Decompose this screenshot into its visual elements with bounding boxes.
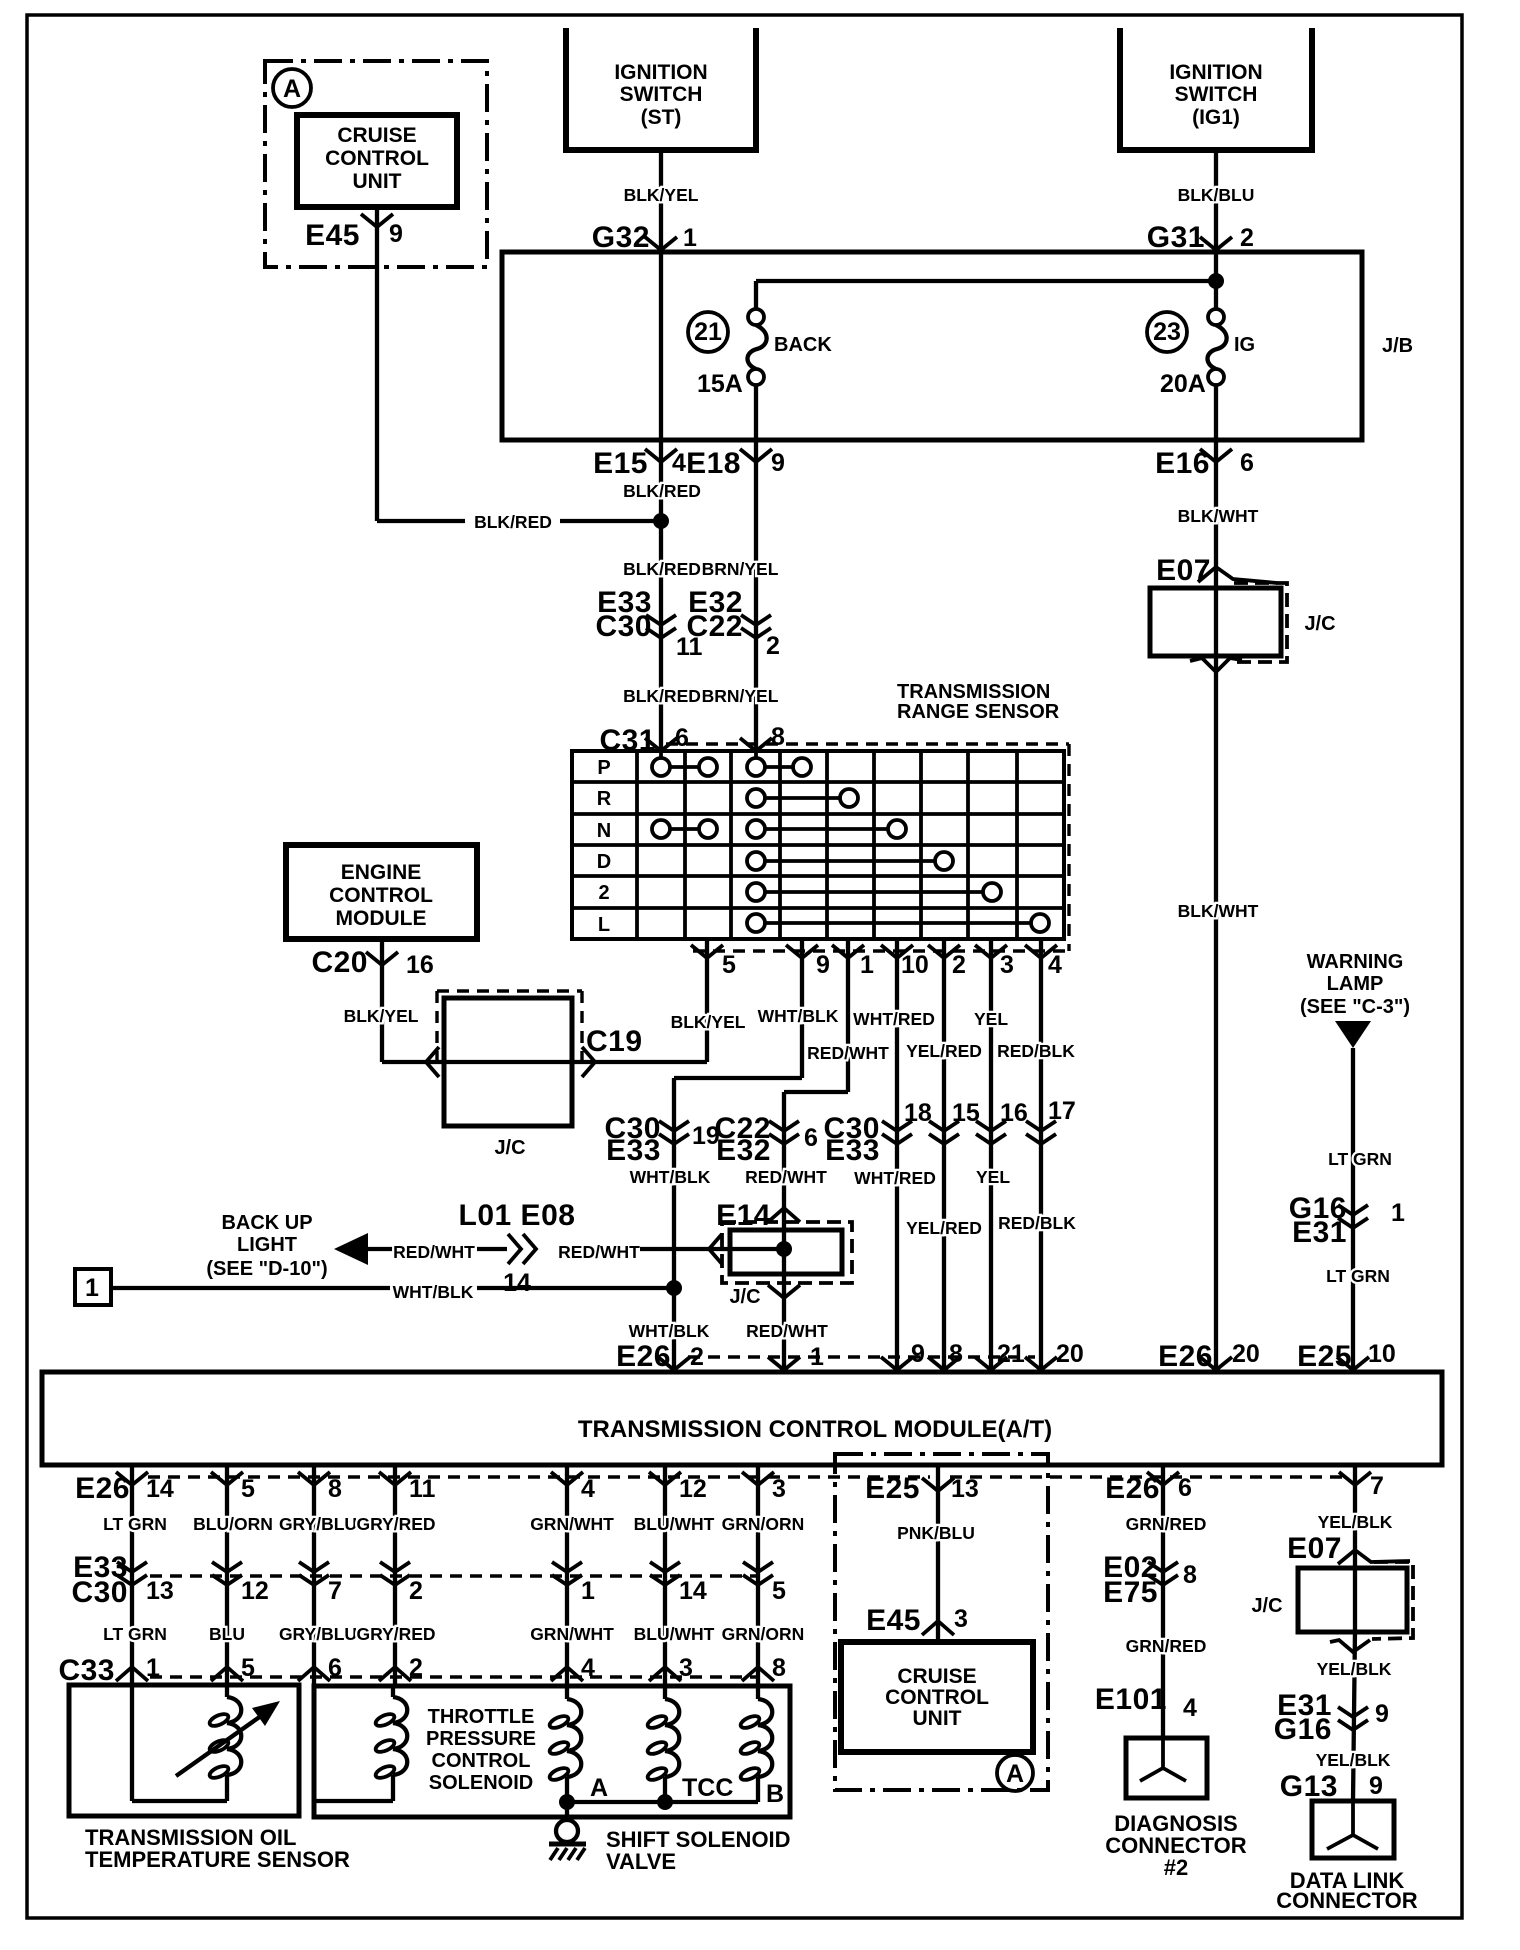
wire through J/B from G32 to E15 xyxy=(659,252,663,440)
connector E26 pin 21 xyxy=(975,1357,1007,1370)
svg-text:WARNING: WARNING xyxy=(1307,951,1404,973)
wire fuse23 to E16 xyxy=(1214,385,1218,440)
svg-text:8: 8 xyxy=(1183,1561,1197,1589)
svg-text:J/C: J/C xyxy=(729,1286,760,1308)
svg-text:(SEE "D-10"): (SEE "D-10") xyxy=(206,1258,327,1280)
svg-text:20: 20 xyxy=(1056,1340,1084,1368)
svg-text:YEL/BLK: YEL/BLK xyxy=(1318,1512,1393,1532)
solenoid assembly box xyxy=(314,1686,790,1817)
svg-text:LT GRN: LT GRN xyxy=(1328,1149,1392,1169)
svg-text:20A: 20A xyxy=(1160,370,1206,398)
wire fuse21 to E18 xyxy=(754,385,758,440)
svg-text:E18: E18 xyxy=(686,447,741,480)
cruise control unit (bottom) dashed boundary xyxy=(835,1454,1048,1790)
svg-text:E07: E07 xyxy=(1287,1532,1342,1565)
wire BRN/YEL E18 to C31 xyxy=(754,440,758,752)
range sensor contacts row D xyxy=(765,859,935,863)
svg-text:BLK/WHT: BLK/WHT xyxy=(1178,506,1259,526)
wire YEL from range sensor pin 3 xyxy=(989,941,993,1372)
transmission range sensor connector dashed boundary xyxy=(666,742,1069,745)
svg-text:C33: C33 xyxy=(58,1654,115,1687)
wire from TCM bottom at x=567 xyxy=(565,1465,569,1686)
svg-text:7: 7 xyxy=(1370,1472,1384,1500)
connector E26 pin 9 xyxy=(881,1357,913,1370)
svg-text:GRY/BLU: GRY/BLU xyxy=(279,1624,357,1644)
wire BLK/YEL from C20 to J/C C19 xyxy=(380,939,384,1062)
transmission oil temperature sensor box xyxy=(69,1685,299,1816)
connector pin 15 xyxy=(929,1121,959,1131)
connector E33/C30 pin 2 xyxy=(380,1562,410,1572)
shift solenoid TCC coil xyxy=(663,1686,667,1699)
svg-text:5: 5 xyxy=(772,1577,786,1605)
svg-text:BLU/ORN: BLU/ORN xyxy=(193,1514,273,1534)
svg-text:16: 16 xyxy=(406,951,434,979)
svg-text:21: 21 xyxy=(694,318,722,346)
svg-text:E26: E26 xyxy=(1158,1340,1213,1373)
svg-text:14: 14 xyxy=(146,1475,174,1503)
svg-text:J/B: J/B xyxy=(1382,335,1413,357)
svg-text:N: N xyxy=(597,820,611,842)
wire BLK/YEL from ignition ST xyxy=(659,150,663,252)
svg-text:LIGHT: LIGHT xyxy=(237,1234,297,1256)
svg-text:YEL/RED: YEL/RED xyxy=(906,1218,982,1238)
svg-text:A: A xyxy=(590,1774,608,1802)
svg-text:C30: C30 xyxy=(71,1576,128,1609)
svg-text:23: 23 xyxy=(1153,318,1181,346)
svg-text:3: 3 xyxy=(679,1654,693,1682)
wire through C19 to range sensor pin 5 xyxy=(382,1060,707,1064)
svg-text:GRY/BLU: GRY/BLU xyxy=(279,1514,357,1534)
cruise control unit (top, detail A) dashed boundary xyxy=(265,61,487,267)
wire BLK/YEL range sensor pin5 down xyxy=(705,941,709,1062)
svg-text:BLU/WHT: BLU/WHT xyxy=(634,1624,715,1644)
range sensor connector pin 4 xyxy=(1025,945,1057,958)
svg-text:G16: G16 xyxy=(1274,1713,1332,1746)
transmission range sensor switch grid xyxy=(572,751,1064,939)
wire branch to fuse 21 xyxy=(756,279,1216,283)
connector E26 pin 8 xyxy=(298,1472,330,1485)
junction block J/B box xyxy=(502,252,1362,440)
connector E33/C30 pin 1 xyxy=(552,1562,582,1572)
svg-text:YEL/RED: YEL/RED xyxy=(906,1041,982,1061)
junction connector C19 J/C dashed boundary xyxy=(437,989,582,992)
node 1 box xyxy=(75,1269,111,1305)
svg-text:1: 1 xyxy=(1391,1199,1405,1227)
svg-text:1: 1 xyxy=(810,1343,824,1371)
svg-text:R: R xyxy=(597,788,612,810)
svg-text:15A: 15A xyxy=(697,370,743,398)
svg-text:E32: E32 xyxy=(716,1134,771,1167)
wire BLK/WHT down to TCM E26-20 xyxy=(1214,588,1218,1372)
svg-text:E33: E33 xyxy=(606,1134,661,1167)
svg-text:BLK/RED: BLK/RED xyxy=(474,512,552,532)
svg-text:CONTROL: CONTROL xyxy=(885,1686,989,1709)
svg-text:A: A xyxy=(1006,1760,1024,1788)
wire WHT/RED from range sensor pin 10 xyxy=(895,941,899,1372)
svg-text:BLK/YEL: BLK/YEL xyxy=(624,185,699,205)
svg-text:RED/BLK: RED/BLK xyxy=(997,1041,1075,1061)
svg-text:6: 6 xyxy=(804,1124,818,1152)
svg-text:E15: E15 xyxy=(593,447,648,480)
svg-text:C19: C19 xyxy=(586,1025,643,1058)
svg-text:IG: IG xyxy=(1234,334,1255,356)
svg-text:14: 14 xyxy=(679,1577,707,1605)
svg-text:E45: E45 xyxy=(866,1604,921,1637)
svg-text:WHT/BLK: WHT/BLK xyxy=(758,1006,839,1026)
svg-text:1: 1 xyxy=(860,951,874,979)
svg-text:WHT/BLK: WHT/BLK xyxy=(630,1167,711,1187)
wire PNK/BLU xyxy=(936,1465,940,1642)
svg-text:SWITCH: SWITCH xyxy=(1175,83,1258,106)
svg-text:GRN/ORN: GRN/ORN xyxy=(722,1514,805,1534)
svg-text:LT GRN: LT GRN xyxy=(103,1514,167,1534)
svg-text:UNIT: UNIT xyxy=(913,1707,962,1730)
svg-text:21: 21 xyxy=(997,1340,1025,1368)
svg-text:6: 6 xyxy=(1240,449,1254,477)
svg-text:BLK/BLU: BLK/BLU xyxy=(1178,185,1255,205)
svg-text:J/C: J/C xyxy=(494,1137,525,1159)
diagnosis connector #2 box xyxy=(1126,1738,1207,1798)
svg-text:10: 10 xyxy=(1368,1340,1396,1368)
svg-text:2: 2 xyxy=(1240,224,1254,252)
svg-text:G13: G13 xyxy=(1280,1770,1338,1803)
svg-text:TCC: TCC xyxy=(682,1774,733,1802)
wire from G31 down into J/B xyxy=(1214,252,1218,309)
svg-text:9: 9 xyxy=(1375,1700,1389,1728)
svg-text:GRN/ORN: GRN/ORN xyxy=(722,1624,805,1644)
connector E26 pin 14 xyxy=(116,1472,148,1485)
connector E26 pin 2 xyxy=(658,1357,690,1370)
svg-text:6: 6 xyxy=(675,724,689,752)
svg-text:7: 7 xyxy=(328,1577,342,1605)
connector E33/C30 pin 14 xyxy=(650,1562,680,1572)
svg-text:4: 4 xyxy=(1048,951,1062,979)
svg-text:WHT/BLK: WHT/BLK xyxy=(393,1282,474,1302)
junction node BLK/RED xyxy=(653,513,669,529)
svg-text:4: 4 xyxy=(672,449,686,477)
svg-text:3: 3 xyxy=(772,1475,786,1503)
range sensor contacts row N xyxy=(670,827,699,831)
wire WHT/BLK from node 1 to junction xyxy=(110,1286,390,1290)
svg-text:YEL/BLK: YEL/BLK xyxy=(1316,1750,1391,1770)
svg-text:GRY/RED: GRY/RED xyxy=(356,1624,435,1644)
connector pin 7 at TCM bottom xyxy=(1339,1472,1371,1485)
svg-text:18: 18 xyxy=(904,1099,932,1127)
data link connector box xyxy=(1312,1801,1394,1858)
svg-text:11: 11 xyxy=(409,1475,436,1503)
svg-text:20: 20 xyxy=(1232,1340,1260,1368)
connector C33 pin 8 xyxy=(742,1667,774,1681)
range sensor connector pin 1 xyxy=(832,945,864,958)
connector C33 pin 3 xyxy=(649,1667,681,1681)
svg-text:E25: E25 xyxy=(865,1472,920,1505)
svg-text:BACK UP: BACK UP xyxy=(221,1212,312,1234)
connector pin 16 xyxy=(976,1121,1006,1131)
svg-text:8: 8 xyxy=(772,1654,786,1682)
wire YEL/BLK xyxy=(1353,1465,1357,1568)
connector E26 pin 20 xyxy=(1025,1357,1057,1370)
wire RED/BLK from range sensor pin 4 xyxy=(1039,941,1043,1372)
svg-text:RED/WHT: RED/WHT xyxy=(746,1321,828,1341)
transmission control module box xyxy=(42,1372,1442,1465)
wire BLK/RED E15 to C31 xyxy=(659,440,663,752)
connector E26 pin 11 xyxy=(379,1472,411,1485)
svg-text:GRN/RED: GRN/RED xyxy=(1126,1636,1207,1656)
cruise control unit box (top) xyxy=(297,115,457,207)
svg-text:8: 8 xyxy=(949,1340,963,1368)
wire from TCM bottom at x=132 xyxy=(130,1465,134,1686)
svg-text:LT GRN: LT GRN xyxy=(103,1624,167,1644)
svg-text:CONTROL: CONTROL xyxy=(325,147,429,170)
wire BLK/WHT from E16 xyxy=(1214,440,1218,588)
connector E33/C30 pin 5 xyxy=(743,1562,773,1572)
range sensor contacts row R xyxy=(765,796,840,800)
shift solenoid A coil xyxy=(565,1686,569,1699)
svg-text:IGNITION: IGNITION xyxy=(1169,61,1262,84)
svg-text:VALVE: VALVE xyxy=(606,1849,676,1874)
svg-text:BLK/RED: BLK/RED xyxy=(623,481,701,501)
svg-text:6: 6 xyxy=(328,1654,342,1682)
wire joining solenoid commons xyxy=(567,1800,758,1804)
thermistor RT (variable resistor) xyxy=(130,1686,134,1801)
svg-text:3: 3 xyxy=(954,1605,968,1633)
svg-text:BRN/YEL: BRN/YEL xyxy=(702,686,779,706)
svg-text:16: 16 xyxy=(1000,1099,1028,1127)
svg-text:4: 4 xyxy=(581,1654,595,1682)
svg-text:2: 2 xyxy=(690,1343,704,1371)
svg-text:SWITCH: SWITCH xyxy=(620,83,703,106)
svg-text:8: 8 xyxy=(771,723,785,751)
svg-text:9: 9 xyxy=(771,449,785,477)
svg-text:9: 9 xyxy=(911,1340,925,1368)
svg-text:E45: E45 xyxy=(305,219,360,252)
circled A marker (bottom) xyxy=(997,1755,1033,1791)
ignition switch (IG1) box xyxy=(1120,28,1312,150)
wire from TCM bottom at x=395 xyxy=(393,1465,397,1686)
svg-text:9: 9 xyxy=(389,220,403,248)
svg-text:E07: E07 xyxy=(1156,554,1211,587)
connector E26 pin 4 xyxy=(551,1472,583,1485)
svg-text:3: 3 xyxy=(1000,951,1014,979)
connector C33 pin 1 xyxy=(116,1667,148,1681)
connector E26 pin 5 xyxy=(211,1472,243,1485)
svg-text:CONTROL: CONTROL xyxy=(432,1750,531,1772)
throttle pressure control solenoid coil xyxy=(391,1686,395,1697)
svg-text:B: B xyxy=(766,1780,784,1808)
range sensor connector pin 5 xyxy=(691,945,723,958)
svg-text:BLK/YEL: BLK/YEL xyxy=(344,1006,419,1026)
svg-text:E31: E31 xyxy=(1292,1216,1347,1249)
svg-text:GRY/RED: GRY/RED xyxy=(356,1514,435,1534)
svg-text:#2: #2 xyxy=(1164,1855,1188,1880)
svg-text:YEL: YEL xyxy=(976,1167,1010,1187)
svg-text:RED/WHT: RED/WHT xyxy=(393,1242,475,1262)
svg-text:9: 9 xyxy=(1369,1772,1383,1800)
svg-text:UNIT: UNIT xyxy=(353,170,402,193)
connector E26 pin 12 xyxy=(649,1472,681,1485)
svg-text:GRN/WHT: GRN/WHT xyxy=(530,1514,614,1534)
svg-text:1: 1 xyxy=(85,1274,99,1302)
svg-text:1: 1 xyxy=(581,1577,595,1605)
svg-text:2: 2 xyxy=(409,1654,423,1682)
svg-text:2: 2 xyxy=(766,632,780,660)
svg-text:4: 4 xyxy=(1183,1694,1197,1722)
svg-text:8: 8 xyxy=(328,1475,342,1503)
connector C33 pin 5 xyxy=(211,1667,243,1681)
connector E26 pin 8 xyxy=(928,1357,960,1370)
connector E33/C30 pin 7 xyxy=(299,1562,329,1572)
connector pin 17 xyxy=(1026,1121,1056,1131)
svg-text:BLU: BLU xyxy=(209,1624,245,1644)
svg-text:10: 10 xyxy=(901,951,929,979)
svg-text:E25: E25 xyxy=(1297,1340,1352,1373)
svg-text:CRUISE: CRUISE xyxy=(337,124,416,147)
svg-text:D: D xyxy=(597,851,611,873)
wire from TCM bottom at x=314 xyxy=(312,1465,316,1686)
range sensor connector pin 2 xyxy=(928,945,960,958)
svg-text:13: 13 xyxy=(951,1475,979,1503)
svg-text:(ST): (ST) xyxy=(641,106,682,129)
ground symbol xyxy=(565,1802,569,1820)
svg-text:TEMPERATURE SENSOR: TEMPERATURE SENSOR xyxy=(85,1847,350,1872)
arrow to back up light xyxy=(334,1233,368,1265)
svg-text:(SEE "C-3"): (SEE "C-3") xyxy=(1300,996,1410,1018)
svg-text:L: L xyxy=(598,914,610,936)
svg-text:SOLENOID: SOLENOID xyxy=(429,1772,533,1794)
svg-text:C20: C20 xyxy=(311,946,368,979)
svg-text:RED/WHT: RED/WHT xyxy=(558,1242,640,1262)
shift solenoid B coil xyxy=(756,1686,760,1699)
junction node A xyxy=(559,1794,575,1810)
circled A marker (top) xyxy=(273,69,311,107)
wire from TCM bottom at x=758 xyxy=(756,1465,760,1686)
svg-text:ENGINE: ENGINE xyxy=(341,861,422,884)
range sensor connector pin 3 xyxy=(975,945,1007,958)
svg-text:GRN/WHT: GRN/WHT xyxy=(530,1624,614,1644)
svg-text:C30: C30 xyxy=(595,610,652,643)
svg-text:RANGE SENSOR: RANGE SENSOR xyxy=(897,701,1060,723)
junction node TCC xyxy=(657,1794,673,1810)
svg-text:RED/BLK: RED/BLK xyxy=(998,1213,1076,1233)
svg-text:13: 13 xyxy=(146,1577,174,1605)
svg-text:PRESSURE: PRESSURE xyxy=(426,1728,536,1750)
wire RED/WHT from range sensor pin 1 xyxy=(846,941,850,1092)
connector C33 pin 4 xyxy=(551,1667,583,1681)
svg-text:G31: G31 xyxy=(1147,221,1205,254)
wire RED/WHT into E14 xyxy=(640,1247,784,1251)
svg-text:5: 5 xyxy=(241,1475,255,1503)
svg-text:12: 12 xyxy=(679,1475,707,1503)
svg-text:5: 5 xyxy=(241,1654,255,1682)
wire from TCM bottom at x=227 xyxy=(225,1465,229,1686)
svg-text:LAMP: LAMP xyxy=(1327,973,1384,995)
svg-text:J/C: J/C xyxy=(1251,1595,1282,1617)
svg-text:TRANSMISSION CONTROL MODULE(A/: TRANSMISSION CONTROL MODULE(A/T) xyxy=(578,1416,1052,1443)
connector E26 pin 3 xyxy=(742,1472,774,1485)
connector C33 pin 2 xyxy=(379,1667,411,1681)
svg-text:P: P xyxy=(597,757,610,779)
junction node WHT/BLK xyxy=(666,1280,682,1296)
svg-text:A: A xyxy=(283,75,301,103)
svg-text:L01 E08: L01 E08 xyxy=(459,1199,576,1232)
svg-text:12: 12 xyxy=(241,1577,269,1605)
svg-text:BACK: BACK xyxy=(774,334,832,356)
fuse 21 BACK 15A xyxy=(748,309,764,325)
svg-text:G32: G32 xyxy=(592,221,650,254)
wire from TCM bottom at x=665 xyxy=(663,1465,667,1686)
connector E33/C30 pin 12 xyxy=(212,1562,242,1572)
svg-text:YEL: YEL xyxy=(974,1009,1008,1029)
range sensor contacts row 2 xyxy=(765,890,983,894)
svg-text:BLK/YEL: BLK/YEL xyxy=(671,1012,746,1032)
svg-text:BLU/WHT: BLU/WHT xyxy=(634,1514,715,1534)
engine control module box xyxy=(286,845,477,939)
svg-text:E75: E75 xyxy=(1103,1576,1158,1609)
svg-text:MODULE: MODULE xyxy=(336,907,427,930)
wire YEL/RED from range sensor pin 2 xyxy=(942,941,946,1372)
svg-text:2: 2 xyxy=(952,951,966,979)
svg-text:E33: E33 xyxy=(825,1134,880,1167)
junction connector E07 J/C box (top) xyxy=(1232,583,1287,662)
svg-text:17: 17 xyxy=(1048,1097,1076,1125)
svg-text:J/C: J/C xyxy=(1304,613,1335,635)
svg-text:2: 2 xyxy=(598,882,609,904)
range sensor connector pin 9 xyxy=(786,945,818,958)
svg-text:CRUISE: CRUISE xyxy=(897,1665,976,1688)
svg-text:9: 9 xyxy=(816,951,830,979)
svg-text:GRN/RED: GRN/RED xyxy=(1126,1514,1207,1534)
svg-text:5: 5 xyxy=(722,951,736,979)
connector E33/C30 pin 13 xyxy=(117,1562,147,1572)
junction node inside J/B xyxy=(1208,273,1224,289)
svg-text:E101: E101 xyxy=(1095,1683,1167,1716)
svg-text:E14: E14 xyxy=(716,1199,771,1232)
svg-text:WHT/BLK: WHT/BLK xyxy=(629,1321,710,1341)
wire GRN/RED xyxy=(1161,1465,1165,1738)
wire LT GRN from warning lamp xyxy=(1351,1048,1355,1372)
svg-text:THROTTLE: THROTTLE xyxy=(428,1706,535,1728)
svg-text:CONNECTOR: CONNECTOR xyxy=(1276,1888,1417,1913)
svg-text:WHT/RED: WHT/RED xyxy=(853,1009,935,1029)
svg-text:RED/WHT: RED/WHT xyxy=(745,1167,827,1187)
svg-text:YEL/BLK: YEL/BLK xyxy=(1317,1659,1392,1679)
connector C33 pin 6 xyxy=(298,1667,330,1681)
range sensor contacts row P xyxy=(659,751,663,758)
svg-text:(IG1): (IG1) xyxy=(1192,106,1240,129)
svg-text:14: 14 xyxy=(503,1269,531,1297)
junction connector C19 J/C box xyxy=(444,998,572,1126)
wire BLK/BLU from ignition IG1 xyxy=(1214,150,1218,252)
wire BLK/RED from cruise E45-9 down and right to junction xyxy=(375,207,379,521)
svg-text:6: 6 xyxy=(1178,1474,1192,1502)
junction connector E07 J/C box (bottom) xyxy=(1372,1562,1413,1639)
ignition switch (ST) box xyxy=(566,28,756,150)
warning lamp arrow xyxy=(1335,1021,1371,1048)
svg-text:BLK/WHT: BLK/WHT xyxy=(1178,901,1259,921)
svg-text:4: 4 xyxy=(581,1475,595,1503)
wire YEL/BLK to G16/E31 xyxy=(1353,1630,1355,1801)
svg-text:BRN/YEL: BRN/YEL xyxy=(702,559,779,579)
wire RED/WHT to back up light xyxy=(368,1247,394,1251)
svg-text:BLK/RED: BLK/RED xyxy=(623,559,701,579)
svg-text:IGNITION: IGNITION xyxy=(614,61,707,84)
connector E26 pin 1 xyxy=(768,1357,800,1370)
range sensor connector pin 10 xyxy=(881,945,913,958)
svg-text:1: 1 xyxy=(683,224,697,252)
range sensor contacts row L xyxy=(765,921,1031,925)
fuse 23 IG 20A xyxy=(1208,309,1224,325)
svg-text:2: 2 xyxy=(409,1577,423,1605)
